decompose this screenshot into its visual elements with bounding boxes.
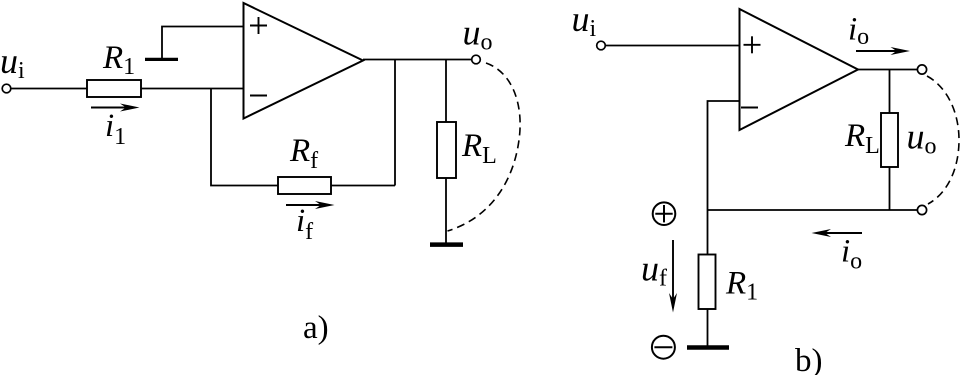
node output terminal bottom (b) xyxy=(917,205,926,214)
op-amp U1 (a) xyxy=(244,3,364,119)
ground below RL (a) xyxy=(430,242,463,247)
wire op-amp output to terminal (a) xyxy=(363,59,472,61)
resistor R1 (b) xyxy=(699,255,716,310)
wire RL to bottom rail (b) xyxy=(889,167,891,210)
svg-text:a): a) xyxy=(303,310,329,346)
dashed load curve (b) xyxy=(927,76,959,204)
polarity plus symbol (b) xyxy=(653,202,676,225)
op-amp U1 plus input mark xyxy=(250,17,267,34)
ground below R1 (b) xyxy=(687,345,729,350)
wire feedback from inverting node down and to Rf (a) xyxy=(211,89,278,186)
svg-text:uo: uo xyxy=(463,13,493,56)
op-amp U2 minus input mark xyxy=(741,107,758,109)
arrow current io bottom (b) xyxy=(812,229,863,237)
svg-text:if: if xyxy=(296,203,313,245)
dashed load curve (a) xyxy=(448,63,521,231)
wire inverting input down to bottom node (b) xyxy=(708,101,740,210)
node output terminal u_o (a) xyxy=(472,55,481,64)
wire output node to RL (a) xyxy=(445,60,447,123)
svg-text:uf: uf xyxy=(641,249,667,292)
wire R1 to ground (b) xyxy=(707,309,709,346)
wire output node to RL (b) xyxy=(889,70,891,114)
arrow current io top (b) xyxy=(856,47,910,55)
resistor RL (a) xyxy=(437,122,456,178)
arrow current i1 (a) xyxy=(91,104,140,112)
resistor Rf (a) xyxy=(278,177,331,194)
wire input terminal to R1 (a) xyxy=(11,88,87,90)
svg-text:io: io xyxy=(848,12,869,51)
op-amp U2 (b) xyxy=(740,9,859,130)
arrow current if (a) xyxy=(286,201,335,209)
node output terminal top (b) xyxy=(917,65,926,74)
svg-text:i1: i1 xyxy=(105,108,126,150)
op-amp U2 plus input mark xyxy=(744,36,761,53)
svg-text:b): b) xyxy=(795,343,823,375)
ground at noninverting input (a) xyxy=(145,58,178,61)
wire Rf to feedback riser (a) xyxy=(331,185,395,187)
wire bottom rail (b) xyxy=(708,209,918,211)
svg-text:RL: RL xyxy=(461,128,497,169)
svg-text:RL: RL xyxy=(844,118,880,159)
svg-text:R1: R1 xyxy=(725,266,758,306)
svg-text:ui: ui xyxy=(572,0,597,42)
svg-text:io: io xyxy=(841,234,862,275)
wire RL to ground (a) xyxy=(445,178,447,243)
resistor RL (b) xyxy=(881,113,898,167)
wire feedback riser up to output (a) xyxy=(394,60,396,186)
svg-text:Rf: Rf xyxy=(289,133,318,174)
resistor R1 (a) xyxy=(87,80,141,97)
polarity minus symbol (b) xyxy=(652,336,675,359)
svg-text:R1: R1 xyxy=(102,40,135,80)
wire noninverting input (a) xyxy=(162,27,244,59)
node input terminal u_i (a) xyxy=(2,84,11,93)
svg-text:uo: uo xyxy=(907,117,937,160)
wire input terminal to noninverting input (b) xyxy=(605,45,739,47)
svg-text:ui: ui xyxy=(0,41,25,84)
node input terminal u_i (b) xyxy=(597,41,606,50)
wire R1 to inverting input (a) xyxy=(141,88,244,90)
op-amp U1 minus input mark xyxy=(250,95,267,97)
arrow voltage uf downward (b) xyxy=(669,240,677,313)
wire op-amp output to terminal (b) xyxy=(858,69,918,71)
wire node to R1 (b) xyxy=(707,210,709,255)
